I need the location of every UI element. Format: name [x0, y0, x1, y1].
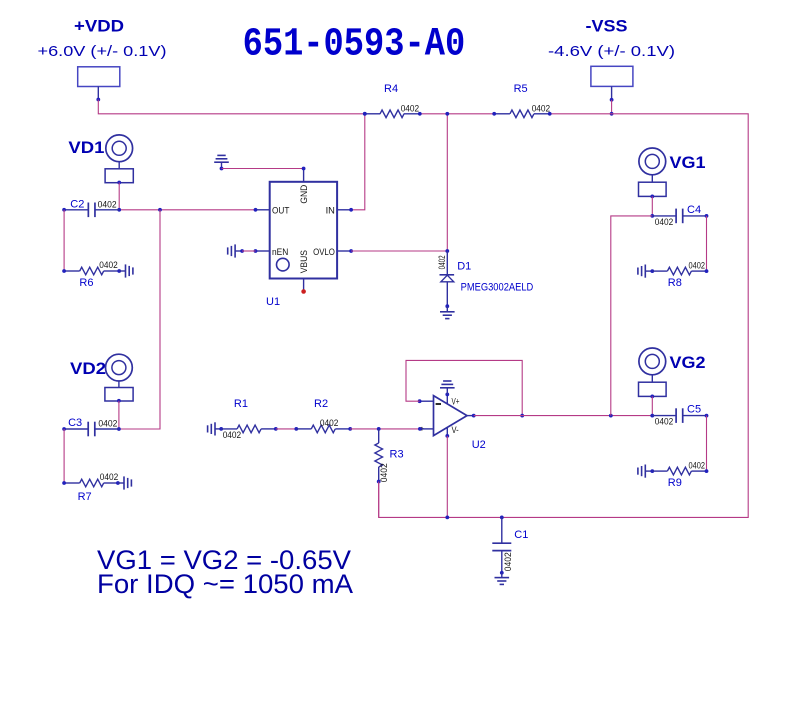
wire U2 feedback loop — [406, 360, 522, 415]
U1 polarity circle — [277, 258, 290, 271]
node -VSS pin dot — [610, 98, 614, 102]
svg-text:0402: 0402 — [320, 418, 339, 428]
svg-text:V+: V+ — [452, 396, 460, 406]
svg-text:0402: 0402 — [655, 417, 674, 427]
capacitor C5 — [652, 415, 676, 417]
junction output row / VG1 branch — [609, 414, 613, 418]
junction rail/IN drop — [363, 112, 367, 116]
ground for U1 GND — [214, 161, 229, 163]
wire VD2 to C3 row — [118, 401, 120, 429]
svg-text:R3: R3 — [390, 449, 404, 461]
svg-text:-VSS: -VSS — [586, 17, 628, 36]
svg-text:IN: IN — [326, 205, 335, 216]
svg-text:0402: 0402 — [532, 103, 551, 113]
wire C5 down to R9 — [706, 416, 708, 472]
svg-text:PMEG3002AELD: PMEG3002AELD — [461, 281, 534, 293]
junction VD1/OUT — [117, 208, 121, 212]
resistor R1 — [219, 427, 223, 431]
op IC U1 body — [270, 182, 337, 279]
U1 pin OVLO — [337, 250, 351, 252]
capacitor C4 — [652, 215, 676, 217]
U2 non-inverting plus sign — [421, 427, 423, 431]
resistor R3 — [378, 429, 380, 443]
U2 V+ pin — [446, 394, 448, 404]
svg-text:VG2: VG2 — [670, 353, 706, 372]
sheet connector VG2 circle symbol — [639, 348, 666, 375]
VG1 stub — [651, 175, 653, 182]
resistor R6 — [64, 270, 80, 272]
wire rail junction down to U1 IN pin — [351, 114, 365, 210]
wire VD1 to OUT net — [118, 183, 120, 210]
VG2 stub — [651, 375, 653, 382]
ground above U2 V+ — [446, 388, 448, 395]
wire U2 V- down to bottom rail — [446, 436, 448, 518]
svg-text:R2: R2 — [314, 398, 328, 410]
junction R3 top — [377, 427, 381, 431]
svg-text:C5: C5 — [687, 404, 701, 416]
VD1 box — [105, 169, 133, 183]
svg-text:0402: 0402 — [98, 199, 117, 209]
wire R4 to R5 — [420, 113, 494, 115]
wire nEN ground to pin — [242, 250, 255, 252]
junction V- on bottom rail — [445, 516, 449, 520]
junction U2 output/feedback — [520, 414, 524, 418]
svg-text:0402: 0402 — [503, 552, 513, 571]
svg-text:D1: D1 — [457, 261, 471, 273]
svg-text:+VDD: +VDD — [74, 17, 124, 36]
svg-text:VD2: VD2 — [70, 359, 106, 378]
resistor R5 — [494, 113, 510, 115]
resistor R2 — [294, 427, 298, 431]
svg-text:R6: R6 — [79, 277, 93, 289]
resistor R8 — [650, 269, 654, 273]
svg-text:0402: 0402 — [689, 260, 706, 270]
U1 pin nEN — [256, 250, 270, 252]
sheet connector VG1 circle symbol — [639, 148, 666, 175]
VD1 stub — [118, 162, 120, 169]
junction C1 on bottom rail — [500, 516, 504, 520]
resistor R7 — [64, 482, 80, 484]
U2 inverting input pin — [420, 400, 434, 402]
svg-text:C3: C3 — [68, 417, 82, 429]
ground below C1 — [501, 573, 503, 578]
svg-text:VG1: VG1 — [670, 153, 706, 172]
U2 inverting input minus sign — [436, 403, 441, 405]
wire OUT row down to VD2 row — [119, 210, 160, 429]
svg-text:VBUS: VBUS — [299, 250, 310, 273]
op-amp U2 triangle — [434, 396, 468, 436]
ground at R6 — [119, 270, 125, 272]
node VG1 box pin dot — [650, 195, 654, 199]
svg-text:VD1: VD1 — [68, 138, 104, 157]
U1 pin VBUS — [303, 279, 305, 291]
wire C2 down to R6 — [63, 210, 65, 271]
ground at R1 — [214, 422, 216, 435]
svg-text:U2: U2 — [472, 439, 486, 451]
capacitor C3 — [64, 428, 88, 430]
wire VG2 to C5 row — [651, 396, 653, 415]
wire +VDD to rail and to R4 — [98, 100, 365, 114]
svg-text:R1: R1 — [234, 398, 248, 410]
U1 VBUS open pin (red) — [301, 289, 306, 294]
U1 pin IN — [337, 209, 351, 211]
wire VG1 to C4 row — [651, 196, 653, 216]
svg-text:0402: 0402 — [98, 418, 117, 428]
wire U2 output to VG2 row — [474, 415, 653, 417]
svg-text:R9: R9 — [668, 477, 682, 489]
svg-text:nEN: nEN — [272, 247, 288, 258]
svg-text:0402: 0402 — [689, 460, 706, 470]
junction -VSS on rail — [610, 112, 614, 116]
svg-text:U1: U1 — [266, 296, 280, 308]
U1 pin OUT — [256, 209, 270, 211]
svg-text:R7: R7 — [78, 491, 92, 503]
VD2 stub — [118, 381, 120, 388]
svg-text:0402: 0402 — [401, 103, 420, 113]
wire C2 to U1 OUT — [119, 209, 255, 211]
wire C4 down to R8 — [706, 216, 708, 271]
U2 output pin — [467, 415, 474, 417]
resistor R9 — [650, 469, 654, 473]
capacitor C1 — [501, 517, 503, 543]
wire R3 bottom to rail — [378, 482, 380, 518]
sheet connector VD1 circle symbol — [106, 135, 133, 162]
ground at U1 nEN — [234, 244, 236, 257]
wire ground to U1 GND pin — [222, 168, 304, 170]
svg-text:OVLO: OVLO — [313, 247, 335, 258]
svg-text:R5: R5 — [514, 83, 528, 95]
ground at R8 — [644, 265, 646, 278]
svg-text:C4: C4 — [687, 204, 701, 216]
VG1 box — [639, 182, 667, 196]
U1 pin GND — [303, 169, 305, 182]
node VD2 box pin dot — [117, 399, 121, 403]
pin of +VDD port — [97, 87, 99, 100]
diode D1 — [446, 251, 448, 275]
svg-text:R8: R8 — [668, 277, 682, 289]
svg-text:-4.6V (+/- 0.1V): -4.6V (+/- 0.1V) — [548, 43, 675, 60]
wire R2 to op-amp + input — [350, 428, 420, 430]
capacitor C2 — [64, 209, 88, 211]
wire R1 to R2 — [276, 428, 297, 430]
svg-text:GND: GND — [299, 185, 310, 204]
U2 V- pin — [446, 427, 448, 436]
U2 non-inverting input pin — [420, 428, 434, 430]
svg-text:C2: C2 — [70, 198, 84, 210]
junction OVLO/D1 — [445, 249, 449, 253]
power port -VSS box — [591, 66, 633, 86]
wire VG1 row left and down to output row — [611, 216, 653, 416]
wire C3 down to R7 — [63, 429, 65, 483]
svg-text:0402: 0402 — [99, 260, 118, 270]
VD2 box — [105, 388, 133, 402]
svg-text:0402: 0402 — [223, 430, 242, 440]
junction VD2 row — [117, 427, 121, 431]
resistor R4 — [365, 113, 381, 115]
node VD1 box pin dot — [117, 181, 121, 185]
svg-text:0402: 0402 — [437, 255, 447, 269]
svg-text:651-0593-A0: 651-0593-A0 — [243, 22, 466, 67]
svg-text:0402: 0402 — [100, 472, 119, 482]
sheet connector VD2 circle symbol — [106, 354, 133, 381]
junction OUT row to VD2 branch — [158, 208, 162, 212]
node VG2 box pin dot — [650, 395, 654, 399]
svg-text:OUT: OUT — [272, 205, 290, 216]
wire R5 right to -VSS corner and down right side to bottom rail — [379, 114, 749, 518]
svg-text:C1: C1 — [514, 529, 528, 541]
junction VG1 row — [650, 214, 654, 218]
node +VDD pin dot — [96, 98, 100, 102]
pin of -VSS port — [611, 86, 613, 99]
wire rail junction down to OVLO/D1 node — [446, 114, 448, 251]
svg-text:+6.0V (+/- 0.1V): +6.0V (+/- 0.1V) — [38, 43, 167, 60]
svg-text:R4: R4 — [384, 83, 398, 95]
svg-text:For IDQ ~= 1050 mA: For IDQ ~= 1050 mA — [97, 569, 353, 599]
svg-text:0402: 0402 — [379, 463, 389, 482]
wire OVLO to D1 node — [351, 250, 447, 252]
svg-text:V-: V- — [452, 425, 459, 435]
VG2 box — [639, 382, 667, 396]
junction VG2 row — [650, 414, 654, 418]
ground below D1 — [446, 306, 448, 312]
junction rail/D1 drop — [445, 112, 449, 116]
ground at R7 — [118, 482, 124, 484]
power port +VDD box — [78, 67, 120, 87]
svg-text:0402: 0402 — [655, 217, 674, 227]
wire -VSS pin to rail — [611, 100, 613, 114]
ground at R9 — [644, 465, 646, 478]
